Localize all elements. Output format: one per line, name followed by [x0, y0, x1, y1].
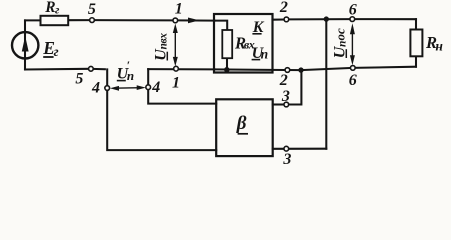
node 1 bottom	[174, 66, 179, 71]
wire: bottom-left rail corner to terminal 5 bottom and source	[93, 68, 105, 70]
wire: top rail from amp box to right corner	[273, 18, 285, 20]
terminal 6 bottom	[350, 66, 355, 71]
junction dot top rail feedback tap	[324, 16, 329, 21]
svg-text:г: г	[55, 3, 60, 17]
svg-text:R: R	[44, 0, 55, 16]
amplifier box K	[214, 14, 273, 73]
paper background	[0, 0, 451, 174]
terminal 2 top	[284, 17, 289, 22]
resistor Rvx (inside amplifier)	[222, 30, 232, 58]
junction dot bottom rail feedback tap	[298, 67, 303, 72]
svg-text:3: 3	[282, 151, 291, 168]
svg-text:г: г	[54, 44, 59, 59]
terminal 6 top	[350, 17, 355, 22]
svg-text:3: 3	[281, 88, 290, 105]
svg-text:п: п	[127, 68, 134, 83]
wire: bottom rail through amp box to right corner	[215, 67, 417, 70]
svg-text:пвх: пвх	[157, 33, 169, 50]
wire: terminal 5 top to node 1 top	[94, 19, 173, 21]
EMF source Eg circle	[12, 32, 38, 58]
wire: right drop to Rn	[415, 19, 417, 29]
measuring arrow Up' between terminals 4	[110, 85, 146, 91]
svg-text:6: 6	[349, 2, 357, 19]
wire: inside amp box, rail to Rvx top	[215, 21, 228, 30]
svg-text:н: н	[435, 39, 443, 54]
node 1 top	[173, 18, 178, 23]
svg-text:4: 4	[151, 79, 160, 96]
resistor Rg	[41, 16, 69, 25]
wire: Rvx bottom lead to bottom rail	[226, 58, 228, 69]
EMF arrow inside source	[22, 36, 29, 52]
svg-text:ос: ос	[332, 28, 347, 41]
label Up.os (rotated)	[331, 28, 348, 58]
terminal 2 bottom	[285, 68, 290, 73]
terminal 3 top	[284, 102, 289, 107]
wire: Rg to terminal 5 top	[68, 19, 90, 21]
svg-text:п: п	[337, 41, 349, 47]
wire: beta left-top pin to right-4 vertical	[148, 69, 216, 103]
wire: bottom rail from right-4 corner to amp box	[148, 68, 214, 70]
terminal 4 left	[105, 86, 110, 91]
svg-text:2: 2	[279, 0, 288, 16]
label Up.vx (rotated)	[152, 33, 169, 61]
junction dot at Rvx bottom	[224, 67, 229, 72]
resistor Rn (load)	[410, 30, 422, 57]
wire: node 1 top to amplifier box with signal arrow	[178, 19, 215, 21]
feedback box beta	[216, 99, 273, 156]
wire: source vertical through EMF circle	[24, 20, 26, 69]
svg-text:5: 5	[75, 70, 83, 87]
wire: beta top output, terminal 3 top to riser up to bottom rail dot	[273, 103, 284, 105]
wire: beta left-bottom pin long run to left-4 vertical	[107, 69, 216, 150]
measuring arrow Up.vx between nodes 1	[173, 24, 178, 67]
terminal 3 bottom	[284, 146, 289, 151]
svg-text:β: β	[236, 113, 247, 134]
terminal 5 top	[90, 18, 95, 23]
svg-text:2: 2	[279, 72, 288, 89]
svg-text:6: 6	[349, 72, 357, 89]
svg-text:4: 4	[91, 79, 100, 96]
svg-text:5: 5	[88, 1, 96, 18]
wire: Rn bottom to bottom rail	[415, 56, 417, 66]
svg-text:1: 1	[175, 0, 183, 17]
wire: feedback sense line from top rail dot down to terminal 3 bottom wire	[325, 19, 327, 149]
terminal 4 right	[146, 85, 151, 90]
svg-text:1: 1	[172, 74, 180, 91]
wire: beta bottom output to vertical riser	[273, 148, 327, 150]
terminal 5 bottom	[89, 66, 94, 71]
measuring arrow Up.os between terminals 6	[350, 23, 355, 65]
svg-text:п: п	[261, 47, 269, 62]
wire: top rail from source to Rg	[25, 19, 41, 21]
